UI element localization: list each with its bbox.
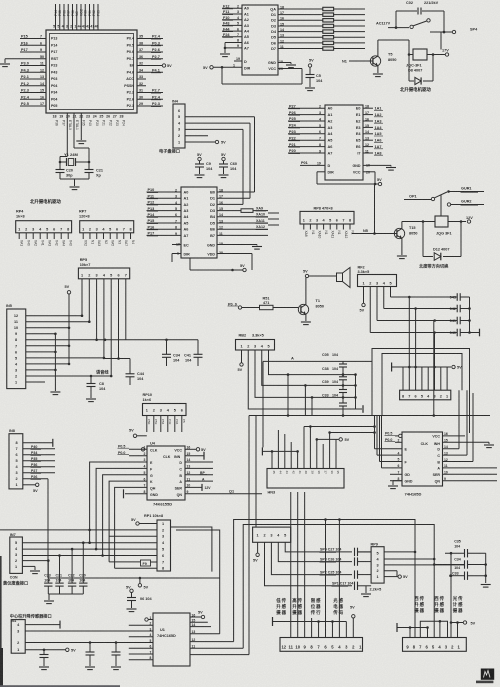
AC117V input and switch SP4 (376, 11, 478, 34)
U8 left pin 6 (382, 464, 403, 468)
scan edge bottom (0, 685, 120, 687)
wire switch to relay (441, 32, 444, 49)
center pole sensor label (10, 613, 52, 620)
header wires to 5V bus (392, 296, 463, 391)
MCU bottom pin 19 P37 (59, 115, 65, 127)
U2 input F44 pin 6 (222, 27, 250, 33)
MCU bottom pin 23 P40 (86, 115, 92, 127)
U2 pins 8 9 tied to ground (220, 39, 249, 57)
transistor T5 8050 (342, 40, 410, 77)
MCU bottom pin 20 ETAL0 (66, 115, 72, 131)
RP2 pin1 to 5V (360, 287, 366, 313)
U1 left pins (129, 616, 153, 660)
5V supply to U2 DIR (203, 64, 242, 71)
U2 input F43 pin 5 (222, 22, 249, 28)
U4 left pin numbers (144, 446, 146, 494)
MCU left pin 15 P2.3 (20, 89, 57, 95)
U1 pin15 (190, 619, 208, 623)
MCU top pin 2 P08 (70, 4, 75, 30)
cap chain right rail (355, 375, 357, 409)
U6 output E1 to 1A2 (356, 111, 383, 117)
IN4 label chinese (159, 148, 180, 155)
sensor labels right connector (414, 595, 463, 614)
MCU left pin 14 P1.2 (20, 82, 57, 88)
U6 output E2 to 1A3 (356, 117, 383, 123)
IN5 pin wires group A to x55 rail (26, 333, 61, 395)
RP9 pin3 wire right (384, 564, 464, 566)
connector IN5 body (6, 304, 26, 389)
U8 ground bottom left (388, 481, 402, 489)
U4 pin 11 A (185, 477, 213, 481)
RP3 pin2 drop (248, 350, 355, 409)
MCU left pin 50 (20, 55, 59, 61)
stubs left of RP8 (268, 213, 279, 225)
octal buffer U7 body (181, 187, 217, 258)
connector IN3 body (267, 469, 344, 495)
MCU left pin 9 P17 (20, 48, 57, 54)
MCU top pin 5 P14 (53, 4, 58, 30)
capacitor C33 104 (322, 393, 347, 406)
MCU top pin 3 P07 (66, 4, 71, 30)
U8 left pin 2 (385, 438, 403, 443)
U8 left pin 4 (377, 451, 402, 455)
flyback diode D12 4007 (423, 222, 461, 261)
connector IN7 CON body (10, 533, 23, 573)
U7 output B0 pin 18 (210, 188, 254, 194)
U4 inside labels (150, 449, 182, 498)
right cap rail and ground (481, 553, 491, 587)
series resistor row 5 (323, 30, 365, 33)
U7 input P10 pin 2 (147, 188, 189, 194)
ground at MCU RST row (0, 59, 20, 67)
U4 pin 12 B (185, 471, 213, 475)
voice line label (96, 369, 109, 376)
U8 left pin 7 (390, 471, 402, 475)
U1 pin14 (190, 623, 211, 627)
capacitor C9 104 (195, 153, 214, 178)
inner routing box (382, 354, 462, 416)
MCU top pin 40 P03 (95, 4, 101, 30)
IN8 pin8 wire to terminator (23, 439, 53, 447)
IN7 pin2 wire (22, 559, 49, 562)
U4 pin 13 C (185, 465, 213, 469)
wire loop around RP1 right (171, 527, 220, 578)
MCU top pin 42 P01 (86, 4, 92, 30)
U4 pin 14 D (185, 458, 213, 462)
shift register U1 body (153, 613, 190, 666)
P5 pin1 5V below (253, 542, 259, 562)
MCU bottom pin 25 P21 (99, 115, 105, 127)
MCU right pin 35 P0.4 (127, 35, 163, 41)
capacitor C22 221/2kV (406, 1, 444, 32)
U6 output E4 to 1A5 (356, 130, 383, 136)
RP2 pin5 wire to C43 (391, 287, 458, 298)
IN8 pin6 wire P34 (23, 451, 55, 455)
U7 output B6 pin 12 (210, 225, 268, 232)
MCU top pin 1 NC (74, 4, 79, 30)
U8 right pin 16 VCC (443, 432, 466, 436)
RP1 pin rows from nested verticals (0, 0, 1, 1)
RP5 pin leads (82, 279, 126, 376)
capacitor C44 104 (126, 359, 145, 386)
octal buffer U6 body (325, 105, 363, 180)
capacitor C05 104 (322, 353, 347, 367)
series resistor row 7 (323, 41, 365, 44)
U2 output D5 pin 13 wire (271, 34, 323, 40)
RP9 pin2 wire (384, 571, 397, 577)
RP4 net labels (20, 240, 73, 246)
row droppers to bus (287, 373, 314, 415)
U6 input P24 pin 5 (288, 124, 332, 130)
U6 input P23 pin 6 (288, 130, 333, 136)
MCU left pin 12 P4.3 (20, 68, 57, 74)
resistor pack RP2 3.3kx5 (358, 265, 397, 286)
MCU bottom pin 24 P20 (93, 115, 99, 127)
MCU right pin 32 PSSN (124, 82, 146, 88)
U8 inside labels (405, 434, 441, 483)
shift register U8 body (402, 432, 443, 486)
resistor pack RP4 1kx8 (16, 210, 72, 240)
capacitor C20 30p (56, 162, 74, 179)
wire loop rect B (243, 525, 435, 649)
shift register U4 body (147, 441, 185, 500)
U6 input P25 pin 4 (288, 117, 332, 123)
U7 output D5 pin 13 (210, 219, 268, 226)
MCU bottom pin 22 F35 (79, 115, 85, 126)
U2 input F24 pin 7 (222, 33, 249, 39)
cap chain column (342, 361, 345, 415)
series resistor row 6 (323, 36, 365, 39)
capacitor C5 104 (305, 59, 323, 91)
IN4 pin4 wire (185, 123, 250, 198)
bottom cap 2 (85, 643, 95, 670)
right connector risers (440, 621, 451, 637)
MCU bottom pin 26 P22 (106, 115, 112, 127)
wire loop rect A (234, 518, 417, 641)
U4 input nested wires to RP1 (90, 462, 147, 568)
IN1 pin3 wire to U1 (25, 630, 153, 632)
U6 output I7 to 1A8 (357, 149, 383, 155)
verticals to U8 inputs (373, 416, 381, 468)
capacitor 041 (450, 317, 470, 325)
U6 input P26 pin 3 (288, 111, 332, 117)
U8 pin 13 C riser (443, 390, 468, 455)
MCU left pin 11 P3.0 (20, 62, 57, 68)
MCU right pin 34 P4.6 (127, 68, 163, 74)
MCU left pin 7 P15 (20, 35, 57, 41)
capacitor C60 104 (219, 153, 238, 178)
U7 output D1 pin 17 (210, 195, 250, 201)
IN8 pin4 wire P36 (23, 463, 55, 467)
U7 output D2 pin 16 (210, 201, 243, 207)
U4 pin 10 SER (185, 484, 211, 491)
U7 input P14 pin 6 (147, 213, 190, 219)
scan noise overlay (0, 0, 1, 1)
capacitor C17 SP1 (332, 582, 372, 590)
resistor pack RP10 10kx6 (143, 393, 187, 432)
crystal Y1 24M (59, 113, 91, 166)
MCU bottom pin 21 ETAL1 (73, 115, 79, 131)
U4 pin 15 CLK INH (185, 452, 204, 460)
IN1 pin2 wire to U1 (25, 641, 153, 644)
U6 input P27 pin 2 (288, 104, 332, 110)
resistor R51 471 (228, 297, 299, 310)
capacitor C34b 104 (434, 558, 487, 571)
speaker SP (337, 268, 351, 288)
sensor labels left connector (275, 597, 343, 616)
connector IN8 body (9, 429, 23, 489)
capacitor C21 (85, 162, 103, 179)
U7 control pins EC DIR (172, 243, 190, 263)
series resistor row 1 (323, 7, 365, 10)
U2 output D2 pin 16 wire (271, 17, 323, 23)
U2 pin 19 enable (234, 57, 251, 71)
U2 output D1 pin 17 wire (271, 11, 323, 17)
central rail from U6 loop (374, 184, 376, 234)
MCU right pin 29 P2.3 (127, 102, 163, 108)
RP9 pin1 to 5V (384, 575, 408, 579)
U4 pin8 terminator (124, 489, 148, 498)
bus y578 (48, 577, 220, 590)
IN4 pin2 stub (185, 135, 208, 137)
label motor drive 2 (30, 198, 61, 205)
resistor pack RP1 10kx8 (144, 514, 171, 571)
MCU right pin 33 ACC (126, 75, 146, 81)
P5 pin wires to SP caps (265, 542, 353, 586)
box F9 (109, 560, 157, 566)
C40-43 right rail (468, 297, 479, 336)
right connector bus terminator (397, 623, 429, 638)
RP3 pin4 drop (262, 350, 343, 385)
bottom cap 3 (111, 643, 121, 670)
IN5 pin wires group B to x69 rail (26, 327, 71, 366)
U4 gnd stub (0, 0, 1, 1)
U1 pin13 riser (190, 578, 220, 634)
RP1 pin1 5V (131, 518, 157, 525)
U7 input P15 pin 7 (147, 219, 189, 225)
IN8 pin7 wire P40 (23, 445, 55, 449)
U4 P0 input labels (118, 444, 148, 455)
U7 output B4 pin 14 (210, 213, 268, 220)
U4 pin 9 QN (185, 490, 262, 494)
left connector bus with terminator (273, 617, 347, 626)
MCU right pin 31 P2.2 (127, 89, 163, 95)
U1 pin16 5V (190, 611, 205, 619)
resistor pack RP8 470x8 (300, 207, 354, 230)
rail C33 row down (450, 552, 453, 624)
resistor pack RP3 3.3kx5 (236, 334, 275, 351)
U2 output D4 pin 14 wire (271, 28, 323, 34)
IN3 pin risers (272, 427, 336, 469)
MCU U5 89C51 body (46, 30, 137, 113)
RP9 pin4 wire right (384, 558, 434, 560)
IN1 pin4 wire to terminator (25, 621, 60, 629)
U6 VCC pin 20 to 5V (353, 170, 382, 185)
U7 input P17 pin 9 (147, 232, 189, 238)
U2 output D3 pin 15 wire (271, 22, 323, 28)
U7 output D3 pin 15 (210, 206, 268, 213)
MCU bottom pin 18 P36 (53, 115, 59, 127)
capacitor 043 (450, 293, 470, 301)
resistor pack RP5 10kx7 (78, 258, 129, 279)
IN7 pin5 wire to RP1 p4 (22, 541, 157, 544)
center bus drops (249, 416, 256, 655)
MCU bottom pin 28 P24 (120, 115, 126, 127)
12V terminal (448, 216, 473, 223)
horizontal bus y415 (249, 414, 490, 417)
U1 pin11 riser (190, 645, 243, 649)
MCU left pin 17 P2.5 (20, 102, 57, 108)
resistor pack RP7 120x8 (79, 210, 134, 240)
header P8 box 8..1 (400, 390, 451, 400)
left connector J2 body (280, 638, 363, 652)
bottom cap 1 (39, 649, 49, 670)
U8 left pin 1 (385, 431, 402, 437)
5V node below U7 (190, 258, 246, 272)
series resistor row 8 (323, 47, 365, 50)
U2 output QA pin 18 wire (270, 5, 323, 11)
capacitor C25 SP2 (320, 570, 372, 578)
capacitor C35 104 (445, 540, 486, 558)
U8 pin 12 B riser (443, 393, 474, 462)
5V for RP10 (129, 429, 147, 438)
IN8 pin5 wire P35 (23, 457, 55, 461)
node wire with label A (263, 356, 372, 448)
IN7 pin3 wire to RP1 p6 (22, 554, 157, 557)
octal buffer U2 74HC245 body (242, 5, 278, 75)
U7 input P12 pin 4 (147, 201, 189, 207)
RP3 pin5 drop (269, 350, 344, 375)
left connector risers (291, 492, 347, 638)
U6 output E5 to 1A6 (356, 137, 383, 143)
U8 pin 11 A wire (443, 464, 498, 468)
MCU top pin 43 P00 (82, 4, 88, 30)
MCU right pin 38 P0.5 (127, 41, 163, 47)
RP1 pin2 long row (0, 529, 157, 532)
U8 right pin 15 CLK INH to ground (443, 439, 495, 448)
switch OP1 OUT1 OUT2 (404, 187, 484, 217)
capacitor C34 104 (162, 340, 181, 366)
5V for left connector (350, 606, 355, 638)
capacitor C39 104 (322, 380, 347, 393)
right connector loop (420, 620, 447, 638)
U8 pin 10 SER wire (443, 471, 498, 475)
capacitor C27 SP4 (320, 548, 372, 556)
U6 input P21 pin 8 (288, 143, 332, 149)
U8 left pin 8 (390, 477, 402, 481)
U1 pin12 riser (190, 638, 234, 642)
IN4 pin1 to 5V (185, 140, 226, 144)
U4 right pin 16 VCC 5V (185, 446, 206, 452)
RP1 pin8 row (115, 567, 157, 569)
IN8 pin3 wire P27 (23, 469, 55, 473)
capacitor C38 104 (322, 367, 347, 380)
relay K1 JQC-3F1 coil (406, 49, 445, 73)
IN8 pin2 wire long drop (23, 475, 48, 578)
U7 input P13 pin 5 (147, 207, 189, 213)
IN1 pin1 to 5V (25, 648, 76, 652)
right connector 5V (451, 621, 476, 638)
5V node left (65, 285, 71, 328)
IN7 pin4 wire to RP1 p5 (22, 548, 157, 551)
bus to C34 C41 (97, 339, 198, 360)
IN4 pin5 wire (185, 117, 255, 192)
RP9 value label (370, 588, 382, 592)
U7 input P11 pin 3 (147, 194, 189, 200)
IN3 riser junctions (262, 425, 374, 455)
RP2 pin4 wire to C42 (384, 287, 457, 309)
U6 control pins D DIR (300, 161, 375, 184)
MCU right pin 32 E6 (130, 62, 173, 68)
U2 output D6 pin 12 wire (271, 39, 323, 45)
U6 input P20 pin 9 (288, 149, 332, 155)
connector IN1 body (11, 619, 25, 653)
U7 input P16 pin 8 (147, 225, 189, 231)
U1 label (157, 628, 176, 638)
U2 input F11 pin 3 (222, 10, 249, 16)
capacitor 042 (450, 305, 470, 313)
capacitor C8 104 (86, 375, 106, 402)
label tilt direction switch (419, 263, 449, 270)
RP1 pin3 row (109, 535, 157, 537)
series resistor row 3 (323, 19, 365, 22)
MCU left pin 6 P16 (20, 41, 57, 47)
RP2 pin2 wire to C40cap (370, 287, 457, 333)
U7 GND VDD pins (207, 242, 262, 270)
U1 pin9 wire (190, 654, 249, 656)
U8 pin 9 QN wire (443, 477, 498, 481)
SP row extensions (358, 551, 372, 553)
flyback diode D8 (409, 55, 433, 85)
U2 output D7 pin 11 wire (271, 45, 323, 51)
crystal ground (60, 179, 89, 190)
U6 output E6 to 1A7 (356, 143, 383, 149)
MCU right pin 37 P0.6 (127, 48, 163, 54)
ground below SP1 row (361, 586, 371, 597)
capacitor C41 104 (184, 340, 203, 366)
MCU top pin 5 P05 (57, 4, 62, 30)
capacitor C26 SP3 (320, 557, 372, 565)
capacitor C6 104 (126, 585, 153, 611)
header P5 box 1-5 (253, 527, 291, 542)
RP10 net labels (147, 419, 186, 425)
RP2 pin3 wire to C41cap (377, 287, 457, 322)
RP3 pin1 to 5V (238, 350, 244, 372)
right connector J3 body (403, 638, 467, 652)
capacitor C33b 104 (449, 572, 487, 580)
transistor T15 8050 (352, 220, 435, 258)
relay K2 JQG-3F1 coil (435, 216, 452, 236)
RP3 pin3 drop (255, 350, 343, 397)
resistor pack RP9 2.2kx5 (371, 542, 385, 583)
U2 input F10 pin 4 (222, 16, 249, 22)
MCU top pin 44 VCC (78, 4, 84, 30)
RP9 pin5 wire right (384, 551, 415, 553)
IN5 pin wires group C to RP5 leads (26, 314, 113, 382)
publisher logo (476, 669, 494, 684)
5V to speaker (303, 269, 337, 277)
U2 input F12 pin 2 (222, 5, 249, 11)
U4 part number (153, 502, 172, 507)
MCU top pin 4 P06 (62, 4, 67, 30)
MCU bottom pin 27 P23 (113, 115, 119, 127)
RP8 net labels (304, 231, 354, 239)
U7 output B7 pin 11 (210, 232, 268, 238)
12V output terminal (442, 49, 449, 57)
connector IN4 electronic disk (172, 100, 185, 149)
IN8 pin1 to 5V (23, 483, 39, 493)
series resistor row 2 (323, 13, 365, 16)
